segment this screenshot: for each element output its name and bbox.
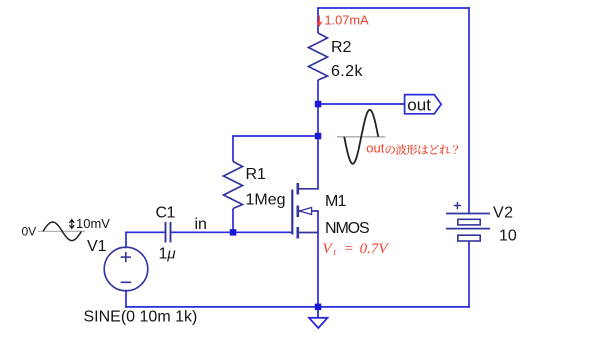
svg-text:R1: R1 bbox=[246, 166, 267, 183]
svg-text:R2: R2 bbox=[331, 39, 352, 56]
node junction out bbox=[315, 101, 322, 108]
wire out net bbox=[318, 103, 405, 105]
svg-text:1μ: 1μ bbox=[159, 245, 176, 262]
wire R1 top bbox=[233, 135, 318, 137]
resistor R2 bbox=[309, 8, 328, 104]
wire C1 to node in bbox=[171, 231, 234, 233]
annotation question text bbox=[366, 140, 458, 155]
svg-text:6.2k: 6.2k bbox=[331, 63, 363, 80]
annotation current arrow bbox=[317, 16, 322, 26]
svg-text:10: 10 bbox=[499, 228, 517, 245]
svg-text:C1: C1 bbox=[156, 205, 176, 222]
svg-text:V1: V1 bbox=[87, 238, 107, 255]
svg-text:in: in bbox=[195, 216, 207, 233]
voltage source V1 bbox=[104, 247, 148, 291]
battery V2 bbox=[446, 202, 490, 241]
flag out bbox=[405, 95, 442, 115]
node junction gate-drain bbox=[315, 133, 322, 140]
svg-text:10mV: 10mV bbox=[76, 216, 110, 231]
wire source vertical bbox=[317, 211, 319, 307]
wire V1 top stub bbox=[125, 232, 127, 247]
svg-text:0V: 0V bbox=[22, 225, 37, 239]
wire bottom rail bbox=[126, 306, 469, 308]
svg-text:1Meg: 1Meg bbox=[246, 192, 286, 209]
svg-text:out: out bbox=[407, 96, 431, 115]
wire V1 to C1 bbox=[126, 231, 165, 233]
node junction ground bbox=[315, 304, 322, 311]
wire V2 top vertical bbox=[468, 8, 470, 214]
svg-text:out: out bbox=[366, 140, 384, 155]
annotation 10mV bbox=[69, 220, 74, 229]
node junction in bbox=[230, 229, 237, 236]
annotation out waveform icon bbox=[337, 110, 385, 164]
svg-text:SINE(0 10m 1k): SINE(0 10m 1k) bbox=[84, 309, 198, 326]
transistor M1 bbox=[292, 183, 318, 239]
wire top rail bbox=[318, 7, 469, 9]
wire V2 bottom vertical bbox=[468, 241, 470, 307]
wire V1 bottom stub bbox=[125, 291, 127, 307]
svg-text:M1: M1 bbox=[325, 193, 347, 210]
capacitor C1 bbox=[166, 222, 171, 242]
wire gate lead bbox=[233, 231, 292, 233]
resistor R1 bbox=[224, 136, 243, 232]
svg-text:1.07mA: 1.07mA bbox=[325, 13, 370, 28]
ground bbox=[309, 307, 328, 328]
svg-text:V2: V2 bbox=[493, 205, 514, 222]
annotation input sine icon bbox=[38, 222, 85, 241]
svg-text:NMOS: NMOS bbox=[325, 220, 369, 237]
wire drain vertical bbox=[317, 104, 319, 189]
